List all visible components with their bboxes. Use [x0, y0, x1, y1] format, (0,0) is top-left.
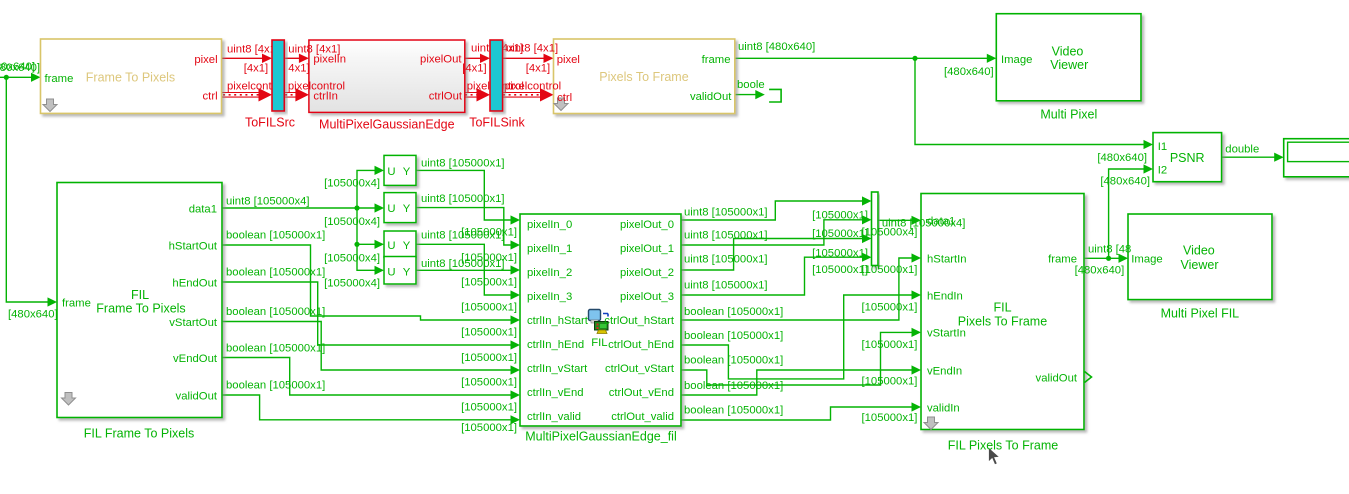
svg-text:[105000x1]: [105000x1] [861, 375, 917, 387]
svg-text:U: U [387, 203, 395, 215]
svg-text:double: double [1225, 143, 1259, 155]
svg-text:pixelcontrol: pixelcontrol [504, 81, 561, 93]
svg-text:ctrlOut_vStart: ctrlOut_vStart [605, 363, 675, 375]
svg-text:[105000x1]: [105000x1] [812, 264, 868, 276]
svg-text:vEndIn: vEndIn [927, 365, 962, 377]
svg-text:FIL Frame To Pixels: FIL Frame To Pixels [84, 426, 194, 440]
svg-text:uint8 [4x1]: uint8 [4x1] [506, 42, 558, 54]
svg-text:U: U [387, 166, 395, 178]
svg-text:hEndOut: hEndOut [172, 277, 217, 289]
svg-text:hEndIn: hEndIn [927, 290, 963, 302]
svg-text:[105000x1]: [105000x1] [861, 339, 917, 351]
svg-text:pixelIn_1: pixelIn_1 [527, 243, 572, 255]
svg-text:Y: Y [403, 267, 411, 279]
svg-text:ToFILSink: ToFILSink [469, 116, 525, 130]
svg-text:Multi Pixel FIL: Multi Pixel FIL [1161, 306, 1240, 320]
svg-text:ctrlOut_hEnd: ctrlOut_hEnd [608, 339, 674, 351]
svg-text:uint8 [105000x1]: uint8 [105000x1] [684, 229, 768, 241]
svg-text:[480x640]: [480x640] [1075, 264, 1125, 276]
svg-text:[4x1]: [4x1] [244, 62, 269, 74]
svg-text:pixel: pixel [557, 54, 580, 66]
svg-text:MultiPixelGaussianEdge: MultiPixelGaussianEdge [319, 118, 455, 132]
svg-text:Image: Image [1001, 54, 1032, 66]
svg-text:frame: frame [702, 54, 731, 66]
svg-text:ctrl: ctrl [557, 92, 572, 104]
svg-text:U: U [387, 240, 395, 252]
svg-text:[105000x1]: [105000x1] [812, 209, 868, 221]
svg-text:boolean [105000x1]: boolean [105000x1] [684, 380, 783, 392]
svg-text:FIL: FIL [591, 337, 607, 349]
svg-text:uint8 [480x640]: uint8 [480x640] [738, 41, 815, 53]
svg-text:validIn: validIn [927, 402, 960, 414]
svg-text:vStartIn: vStartIn [927, 327, 966, 339]
svg-text:Multi Pixel: Multi Pixel [1040, 108, 1097, 122]
svg-text:Frame To Pixels: Frame To Pixels [96, 302, 185, 316]
svg-text:uint8 [105000x1]: uint8 [105000x1] [421, 193, 505, 205]
svg-text:boolean [105000x1]: boolean [105000x1] [684, 330, 783, 342]
svg-text:ctrlIn: ctrlIn [313, 90, 337, 102]
svg-text:Pixels To Frame: Pixels To Frame [958, 315, 1047, 329]
svg-text:[105000x4]: [105000x4] [324, 252, 380, 264]
svg-text:hStartOut: hStartOut [169, 240, 218, 252]
svg-text:boolean [105000x1]: boolean [105000x1] [226, 266, 325, 278]
svg-text:[480x640]: [480x640] [1097, 152, 1147, 164]
svg-text:ctrlOut_hStart: ctrlOut_hStart [604, 315, 675, 327]
svg-text:MultiPixelGaussianEdge_fil: MultiPixelGaussianEdge_fil [525, 429, 676, 443]
svg-text:uint8 [105000x1]: uint8 [105000x1] [684, 206, 768, 218]
svg-text:pixelIn_2: pixelIn_2 [527, 267, 572, 279]
svg-text:[105000x4]: [105000x4] [324, 177, 380, 189]
svg-text:[105000x1]: [105000x1] [461, 301, 517, 313]
svg-text:FIL Pixels To Frame: FIL Pixels To Frame [948, 438, 1058, 452]
svg-text:U: U [387, 267, 395, 279]
svg-text:ctrlIn_hStart: ctrlIn_hStart [527, 315, 589, 327]
svg-text:[105000x1]: [105000x1] [861, 412, 917, 424]
svg-text:[105000x4]: [105000x4] [324, 216, 380, 228]
svg-text:[4x1]: [4x1] [462, 63, 487, 75]
svg-text:pixelOut_3: pixelOut_3 [620, 291, 674, 303]
svg-text:[105000x1]: [105000x1] [461, 252, 517, 264]
svg-text:boole: boole [737, 79, 765, 91]
svg-text:frame: frame [62, 297, 91, 309]
svg-text:validOut: validOut [1036, 372, 1078, 384]
svg-text:ctrlIn_vStart: ctrlIn_vStart [527, 363, 588, 375]
svg-text:boolean [105000x1]: boolean [105000x1] [684, 306, 783, 318]
svg-text:FIL: FIL [131, 288, 149, 302]
svg-text:pixelOut_1: pixelOut_1 [620, 243, 674, 255]
svg-text:PSNR: PSNR [1170, 151, 1205, 165]
svg-text:[105000x1]: [105000x1] [812, 247, 868, 259]
svg-text:[105000x1]: [105000x1] [861, 264, 917, 276]
svg-text:boolean [105000x1]: boolean [105000x1] [226, 306, 325, 318]
svg-text:ctrlIn_hEnd: ctrlIn_hEnd [527, 339, 584, 351]
svg-text:Viewer: Viewer [1050, 58, 1088, 72]
svg-text:[105000x1]: [105000x1] [812, 228, 868, 240]
svg-text:Y: Y [403, 203, 411, 215]
svg-text:ctrlOut_vEnd: ctrlOut_vEnd [609, 387, 674, 399]
svg-text:Y: Y [403, 166, 411, 178]
svg-text:I1: I1 [1158, 141, 1167, 153]
svg-text:vEndOut: vEndOut [173, 353, 218, 365]
svg-text:frame: frame [1048, 253, 1077, 265]
svg-text:hStartIn: hStartIn [927, 253, 967, 265]
svg-text:data1: data1 [927, 215, 955, 227]
svg-text:ToFILSrc: ToFILSrc [245, 116, 295, 130]
svg-text:[105000x1]: [105000x1] [461, 401, 517, 413]
svg-text:pixelIn_3: pixelIn_3 [527, 291, 572, 303]
svg-text:[480x640]: [480x640] [944, 66, 994, 78]
svg-text:[105000x1]: [105000x1] [861, 301, 917, 313]
svg-text:ctrlIn_vEnd: ctrlIn_vEnd [527, 387, 584, 399]
svg-text:[480x640]: [480x640] [1100, 176, 1150, 188]
svg-text:[105000x1]: [105000x1] [461, 326, 517, 338]
svg-text:uint8 [48: uint8 [48 [1088, 243, 1131, 255]
svg-text:vStartOut: vStartOut [169, 317, 218, 329]
svg-text:FIL: FIL [993, 300, 1011, 314]
svg-text:pixelOut_2: pixelOut_2 [620, 267, 674, 279]
svg-text:boolean [105000x1]: boolean [105000x1] [226, 229, 325, 241]
svg-text:validOut: validOut [690, 91, 732, 103]
svg-text:Video: Video [1183, 244, 1215, 258]
svg-text:Image: Image [1131, 253, 1162, 265]
svg-text:boolean [105000x1]: boolean [105000x1] [684, 404, 783, 416]
svg-text:ctrlIn_valid: ctrlIn_valid [527, 411, 581, 423]
svg-text:boolean [105000x1]: boolean [105000x1] [684, 354, 783, 366]
svg-text:Pixels To Frame: Pixels To Frame [599, 70, 688, 84]
svg-text:ctrlOut_valid: ctrlOut_valid [611, 411, 674, 423]
svg-text:Video: Video [1052, 45, 1084, 59]
svg-text:4x1]: 4x1] [288, 62, 309, 74]
svg-text:boolean [105000x1]: boolean [105000x1] [226, 379, 325, 391]
svg-text:validOut: validOut [176, 390, 218, 402]
svg-text:Y: Y [403, 240, 411, 252]
svg-text:pixelOut_0: pixelOut_0 [620, 219, 674, 231]
svg-text:uint8 [105000x1]: uint8 [105000x1] [421, 157, 505, 169]
svg-text:frame: frame [45, 73, 74, 85]
svg-text:pixelOut: pixelOut [420, 54, 462, 66]
svg-text:[4x1]: [4x1] [526, 63, 551, 75]
svg-text:[105000x1]: [105000x1] [461, 276, 517, 288]
svg-text:Frame To Pixels: Frame To Pixels [86, 71, 175, 85]
svg-text:uint8 [105000x1]: uint8 [105000x1] [684, 253, 768, 265]
svg-text:[105000x1]: [105000x1] [461, 376, 517, 388]
svg-text:uint8 [105000x4]: uint8 [105000x4] [226, 195, 310, 207]
svg-text:[105000x1]: [105000x1] [461, 226, 517, 238]
svg-text:boolean [105000x1]: boolean [105000x1] [226, 342, 325, 354]
svg-text:pixelIn: pixelIn [313, 54, 346, 66]
svg-text:[105000x1]: [105000x1] [461, 352, 517, 364]
svg-text:[480x640]: [480x640] [8, 309, 58, 321]
svg-text:I2: I2 [1158, 164, 1167, 176]
svg-text:Viewer: Viewer [1181, 258, 1219, 272]
svg-text:ctrlOut: ctrlOut [429, 90, 463, 102]
svg-text:data1: data1 [189, 203, 217, 215]
svg-text:ctrl: ctrl [203, 90, 218, 102]
svg-text:[105000x4]: [105000x4] [324, 277, 380, 289]
svg-text:uint8 [105000x1]: uint8 [105000x1] [684, 279, 768, 291]
svg-text:pixel: pixel [194, 54, 217, 66]
svg-text:[105000x1]: [105000x1] [461, 422, 517, 434]
svg-text:pixelIn_0: pixelIn_0 [527, 219, 572, 231]
svg-text:[480x640]: [480x640] [0, 61, 35, 73]
